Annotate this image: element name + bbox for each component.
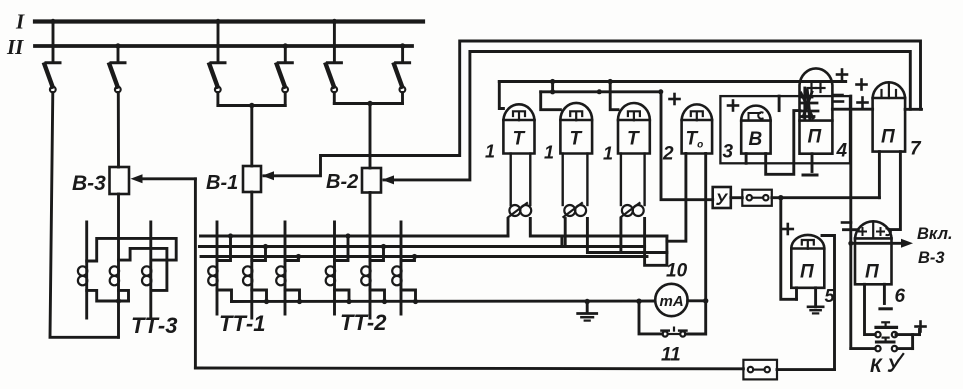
TT-3 winding 2 <box>110 266 119 285</box>
tube P7 right leg to P6 anode <box>889 152 901 230</box>
svg-text:3: 3 <box>723 142 734 163</box>
KU right side common to plus terminal <box>896 330 920 349</box>
plus mark at B grid <box>728 101 738 111</box>
wire P7 anode to outer loops <box>905 108 921 111</box>
tube P7 (output tube, label P, pos 7) <box>873 82 906 151</box>
svg-text:У: У <box>716 190 729 209</box>
breaker B-2 box <box>362 168 381 193</box>
tube B cathode leg to box bottom <box>745 154 748 164</box>
tube P5 anode wire to bottom net <box>822 236 835 370</box>
common return wire H3 to meter <box>232 300 656 303</box>
TT-1 winding 3 <box>276 266 285 285</box>
bottom control net wire <box>195 367 743 371</box>
busbar I <box>35 19 423 23</box>
disconnector switch QS3 (bus I, x=218) <box>210 19 226 93</box>
svg-text:П: П <box>808 127 822 148</box>
svg-text:7: 7 <box>910 139 922 160</box>
secondary bus row 3 <box>201 255 647 258</box>
TT-3 winding 3 <box>142 266 151 285</box>
wire U to fuse F1 <box>731 196 743 199</box>
tube To (time tube, label To, pos 2) <box>682 104 713 153</box>
current transformer TT-1 phase line a <box>216 222 219 314</box>
svg-text:К У: К У <box>870 356 902 377</box>
TT-3 winding bottoms common wire <box>87 290 129 303</box>
TT-1 winding 1 return to common H3 <box>217 290 232 302</box>
grid wire A (common, upper) <box>499 79 845 110</box>
coupling wire P4 to P7 <box>832 108 872 111</box>
plus plus marks inside P4 <box>808 84 825 92</box>
wire QS5+QS6 bridge to breaker B-2 <box>334 93 402 169</box>
current transformer TT-3 phase line a <box>85 222 88 318</box>
current transformer TT-2 phase line a <box>333 222 336 314</box>
TT-2 winding 3 tap to bus row 3 <box>401 254 417 261</box>
TT-1 winding 1 tap to bus row 1 <box>217 233 233 260</box>
plus mark at P5 <box>783 224 793 234</box>
svg-text:В-3: В-3 <box>72 172 106 195</box>
TT-2 winding 3 return to common H3 <box>401 290 418 304</box>
control key KU lower contact <box>875 338 897 352</box>
svg-text:11: 11 <box>661 345 681 366</box>
tube B anode path to P4 <box>766 111 800 175</box>
box around tubes B and P4 <box>720 96 850 163</box>
disconnector switch QS5 (bus I, x=334.4) <box>326 19 342 93</box>
shunt contact 11 around meter <box>636 299 705 337</box>
control key KU upper contact <box>875 322 897 337</box>
wire QS2 down to breaker B-3 <box>117 93 120 168</box>
tube P4 (power relay tube, label P, pos 4) <box>800 68 833 153</box>
wire meter right to node E <box>688 298 709 303</box>
fuse F1 (right of U) <box>742 190 772 206</box>
trip wire into B-1 with arrow (from tube P7 outer loop) <box>262 41 921 180</box>
wire QS3+QS4 bridge to breaker B-1 <box>218 93 285 167</box>
svg-text:П: П <box>881 127 895 148</box>
svg-text:2: 2 <box>662 144 674 165</box>
svg-text:В-3: В-3 <box>918 249 945 267</box>
svg-text:В-1: В-1 <box>206 172 238 194</box>
wire QS1 down to TT-3 bottom bracket <box>50 93 118 338</box>
matching transformer winding under T1 <box>509 154 532 218</box>
TT-1 winding 2 tap to bus row 2 <box>252 244 268 261</box>
output wire through P6 with arrow Vkl B-3 <box>848 239 913 248</box>
plus-e mark inside P6 <box>859 228 891 235</box>
disconnector switch QS1 (bus I, x=53) <box>45 19 61 93</box>
tube P6 (output to B-3, label P, pos 6) <box>855 221 892 284</box>
current transformer TT-2 phase line c <box>400 222 403 314</box>
crossing blob on bus II at x=334.4 <box>332 44 336 48</box>
amplifier device U box <box>713 187 731 208</box>
wire W1 right to bus row 2 <box>530 219 667 247</box>
trip wire into B-3 with arrow (from bottom net) <box>131 174 196 368</box>
svg-text:1: 1 <box>603 144 613 164</box>
wire from box top into P4 grid <box>778 96 781 111</box>
trip wire into B-2 with arrow (from tube P7 inner loop) <box>382 52 910 185</box>
tube To right leg down to meter node <box>704 154 707 301</box>
supply wire from box corner down to KU button <box>849 96 852 349</box>
KU lower-left lead from supply wire <box>851 347 875 350</box>
plus mark at KU <box>916 322 926 332</box>
plus mark at end of grid wire A <box>837 70 847 80</box>
wire F1 to node D and on to P7 left leg <box>772 195 880 200</box>
accent over U of KU <box>900 354 903 358</box>
svg-text:Вкл.: Вкл. <box>917 225 953 243</box>
wire W2 right to W3 left link <box>587 219 667 253</box>
TT-2 winding 1 tap to bus row 1 <box>335 233 351 260</box>
tube P5 right leg to ground <box>814 288 817 307</box>
tube T1 (gas tube, label T, pos 1) <box>503 104 534 153</box>
breaker B-1 box <box>243 166 261 192</box>
disconnector switch QS4 (bus II, x=285.3) <box>277 43 293 92</box>
tube P7 left leg to fuse line <box>878 152 881 198</box>
busbar II <box>35 44 412 48</box>
plus mark at P7 anode top <box>857 80 867 90</box>
svg-text:Т: Т <box>570 129 583 150</box>
svg-text:1: 1 <box>485 142 495 162</box>
TT-1 winding 3 return to common H3 <box>285 290 302 304</box>
svg-text:Т: Т <box>627 129 640 150</box>
current transformer TT-1 feeder line (middle, from B-1) <box>250 192 253 318</box>
disconnector switch QS2 (bus II, x=118) <box>110 43 126 92</box>
minus supply stub into P6 anode <box>844 228 859 231</box>
tube P6 left leg down to KU <box>865 284 876 334</box>
wire node D down to P5 cathode <box>781 198 797 300</box>
TT-2 winding 1 return to common H3 <box>335 290 352 304</box>
svg-text:ТТ-1: ТТ-1 <box>219 311 265 336</box>
TT-2 winding 1 <box>326 266 335 285</box>
current transformer TT-1 phase line c <box>284 222 287 314</box>
svg-text:В-2: В-2 <box>326 171 358 193</box>
TT-1 winding 3 tap to bus row 3 <box>285 254 301 261</box>
tube P4 cathode leg and minus terminal <box>803 154 817 175</box>
svg-text:4: 4 <box>836 141 848 162</box>
current transformer TT-3 feeder line (middle) <box>117 194 120 337</box>
secondary bus row 1 <box>201 235 509 238</box>
svg-text:10: 10 <box>666 261 688 282</box>
TT-1 winding 2 return to common H3 <box>252 290 269 304</box>
svg-text:ТТ-3: ТТ-3 <box>131 313 177 338</box>
svg-text:I: I <box>15 10 25 34</box>
tube P5 (repeat tube, label P, pos 5) <box>791 235 824 288</box>
current transformer TT-3 phase line c <box>149 222 152 318</box>
TT-2 winding 3 <box>392 266 401 285</box>
secondary bus row 2 <box>199 245 644 248</box>
plus mark at coupling wire <box>858 98 868 108</box>
wire F2 to P5 anode riser <box>777 368 835 371</box>
TT-1 winding 1 <box>208 266 217 285</box>
milliammeter mA (pos 10) <box>655 284 687 316</box>
minus mark above stub <box>842 221 851 224</box>
node: bus row1 rise to transformer W1 left <box>507 219 510 237</box>
TT-3 secondary wiring loop L1 <box>87 238 177 261</box>
TT-3 winding 1 <box>78 266 87 285</box>
plus mark at To grid <box>670 94 680 104</box>
svg-text:П: П <box>800 262 814 283</box>
tube P6 right leg with minus terminal <box>880 284 891 309</box>
tube B (ignition tube, label B, pos 3) <box>741 106 770 154</box>
TT-1 winding 2 <box>243 266 252 285</box>
svg-text:В: В <box>749 129 763 150</box>
svg-text:тА: тА <box>660 293 684 310</box>
tube T3 (gas tube, label T, pos 1) <box>618 103 650 154</box>
svg-text:Т: Т <box>513 129 526 150</box>
fuse F2 (bottom) <box>743 360 777 380</box>
ground tap on H3 <box>578 299 597 321</box>
matching transformer winding under T3 <box>621 154 645 218</box>
svg-text:П: П <box>865 262 879 283</box>
TT-2 winding 2 return to common H3 <box>370 290 387 304</box>
svg-text:1: 1 <box>544 143 554 163</box>
disconnector switch QS6 (bus II, x=402.6) <box>394 43 410 92</box>
current transformer TT-2 feeder line (middle, from B-2) <box>369 193 372 319</box>
wire W3 right loop to node C <box>645 154 686 266</box>
svg-text:ТТ-2: ТТ-2 <box>340 310 387 335</box>
svg-text:II: II <box>6 35 24 59</box>
tube P4 internal electrodes (dense sketch) <box>800 88 818 120</box>
minus mark right of P4 <box>834 94 843 97</box>
svg-text:6: 6 <box>895 286 906 307</box>
breaker B-3 box <box>110 167 130 194</box>
TT-2 winding 2 <box>361 266 370 285</box>
wire bus row2 rise to transformer W2 left <box>564 219 567 247</box>
tube T2 (gas tube, label T, pos 1) <box>560 103 592 154</box>
matching transformer winding under T2 <box>563 154 588 218</box>
TT-3 secondary wiring loop L2 <box>119 248 167 290</box>
grid wire B (common, lower) <box>541 89 713 199</box>
TT-2 winding 2 tap to bus row 2 <box>370 244 386 261</box>
ground symbol under P5 <box>808 307 823 314</box>
minus mark at box right <box>834 100 843 103</box>
tube P5 left leg <box>795 288 798 300</box>
crossing blob on bus II at x=218 <box>216 44 220 48</box>
